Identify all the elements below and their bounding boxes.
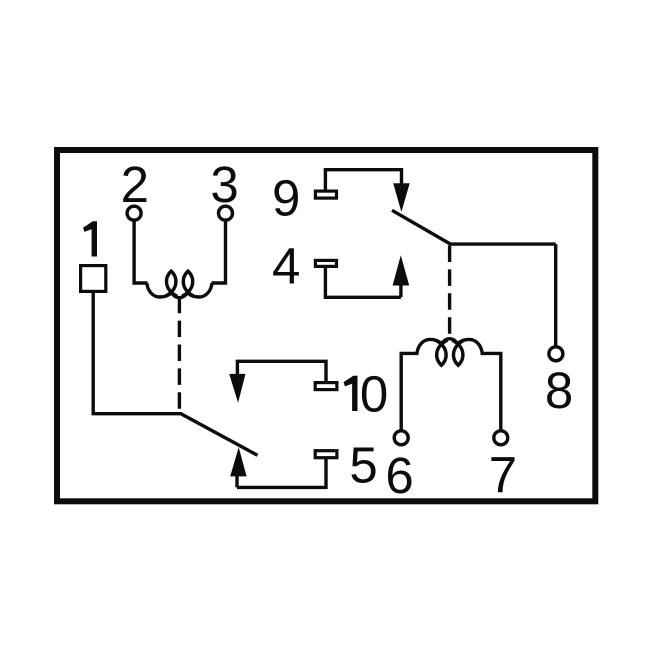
svg-text:7: 7 — [489, 446, 517, 503]
svg-text:9: 9 — [272, 169, 300, 226]
svg-text:4: 4 — [272, 237, 300, 294]
svg-text:6: 6 — [385, 447, 413, 504]
svg-text:2: 2 — [121, 156, 149, 213]
svg-text:8: 8 — [545, 362, 573, 419]
svg-text:3: 3 — [210, 156, 238, 213]
svg-text:5: 5 — [349, 437, 377, 494]
svg-text:0: 0 — [360, 365, 388, 422]
